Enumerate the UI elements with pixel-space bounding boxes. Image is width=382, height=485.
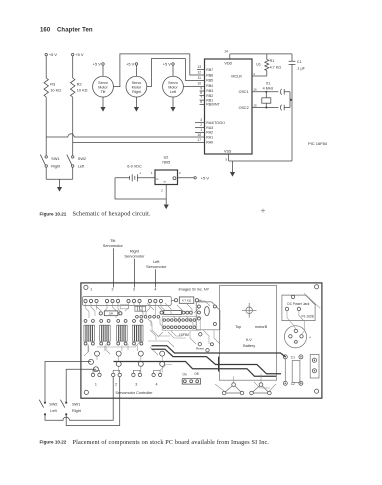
svg-text:Battery: Battery bbox=[243, 344, 255, 348]
battery 6-9 VDC bbox=[115, 164, 155, 181]
svg-text:R3: R3 bbox=[50, 83, 55, 87]
svg-text:Right: Right bbox=[72, 409, 82, 413]
svg-text:3: 3 bbox=[200, 118, 202, 122]
svg-text:10 KΩ: 10 KΩ bbox=[77, 89, 88, 93]
svg-text:RB5: RB5 bbox=[206, 79, 213, 83]
DC power jack box bbox=[282, 295, 315, 321]
resistor footprint 4.7K bbox=[171, 297, 201, 303]
ground (7805) bbox=[164, 199, 169, 209]
component footprint (crystal) bbox=[135, 306, 146, 311]
svg-text:RB1: RB1 bbox=[206, 98, 213, 102]
mounting hole BR bbox=[315, 389, 319, 393]
thick trace D bbox=[218, 357, 220, 372]
svg-text:Left: Left bbox=[50, 409, 57, 413]
svg-text:Top: Top bbox=[235, 325, 241, 329]
DIP component block A bbox=[84, 319, 95, 345]
svg-text:+5 V: +5 V bbox=[93, 61, 102, 66]
svg-text:Figure 10.22: Figure 10.22 bbox=[40, 440, 67, 445]
pads row (column mids) bbox=[116, 361, 121, 366]
capacitor (OSC1 load) bbox=[280, 89, 290, 95]
+5V terminal (R3) bbox=[45, 53, 47, 55]
DIP socket pads row B bbox=[163, 326, 166, 329]
svg-text:RB2: RB2 bbox=[206, 94, 213, 98]
capacitor (OSC2 load) bbox=[280, 105, 290, 111]
wire bbox=[45, 56, 47, 78]
wire traces (top fan-out) bbox=[86, 303, 166, 318]
resistor footprint 10K b bbox=[160, 310, 192, 314]
svg-text:motorB: motorB bbox=[255, 325, 268, 329]
switch SW2 Left bbox=[67, 155, 86, 180]
component footprint right bbox=[310, 354, 319, 378]
svg-text:RB0/INT: RB0/INT bbox=[206, 103, 220, 107]
svg-text:2: 2 bbox=[200, 123, 202, 127]
regulator U2 7805 bbox=[151, 156, 181, 185]
thick trace B bbox=[152, 349, 282, 374]
svg-text:18: 18 bbox=[197, 133, 201, 137]
mounting hole BL bbox=[84, 390, 88, 394]
svg-text:Servomotor: Servomotor bbox=[124, 254, 145, 259]
resistor R1 4.7K bbox=[266, 54, 268, 60]
svg-text:Right: Right bbox=[51, 165, 61, 169]
svg-text:+5 V: +5 V bbox=[163, 61, 172, 66]
svg-text:VSS: VSS bbox=[224, 150, 232, 154]
mounting crosshair bbox=[242, 303, 257, 318]
svg-text:C1: C1 bbox=[291, 355, 295, 359]
svg-text:RA2: RA2 bbox=[206, 131, 213, 135]
svg-text:Schematic of hexapod circuit.: Schematic of hexapod circuit. bbox=[73, 211, 152, 218]
svg-text:9: 9 bbox=[200, 87, 202, 91]
svg-text:PIC 16F84: PIC 16F84 bbox=[308, 141, 328, 146]
svg-text:Servo: Servo bbox=[168, 81, 178, 85]
svg-text:+5 V: +5 V bbox=[75, 52, 84, 57]
svg-text:RA1: RA1 bbox=[206, 136, 213, 140]
wire SW2 top to board bbox=[45, 362, 91, 402]
DIP socket outline bbox=[162, 317, 200, 331]
svg-text:+5 V: +5 V bbox=[201, 175, 210, 180]
svg-text:Tilt: Tilt bbox=[101, 90, 106, 94]
wire traces (columns) bbox=[97, 355, 162, 373]
svg-text:RA3: RA3 bbox=[206, 126, 213, 130]
svg-text:4.7 KΩ: 4.7 KΩ bbox=[270, 66, 282, 70]
triangle footprint 2 bbox=[250, 383, 272, 395]
DIP component block C bbox=[117, 319, 128, 345]
thick trace C bbox=[114, 362, 277, 377]
svg-text:VDD: VDD bbox=[224, 61, 232, 65]
svg-text:OSC1: OSC1 bbox=[239, 90, 249, 94]
svg-text:Servomotor: Servomotor bbox=[146, 264, 167, 269]
DIP component block D bbox=[132, 319, 143, 345]
svg-text:Images SI Inc. NY: Images SI Inc. NY bbox=[179, 287, 210, 291]
svg-text:10 KΩ: 10 KΩ bbox=[50, 89, 61, 93]
trace jack to edge bbox=[304, 293, 320, 308]
svg-text:Servomotor Controller: Servomotor Controller bbox=[115, 391, 153, 395]
svg-text:160: 160 bbox=[40, 28, 51, 34]
svg-text:9-V: 9-V bbox=[246, 338, 252, 342]
DC jack footprint bbox=[284, 311, 311, 348]
diagonal trace col4 bbox=[160, 365, 172, 371]
svg-text:+: + bbox=[139, 171, 141, 175]
switch SW1 Right bbox=[40, 155, 61, 180]
svg-text:4.7 KΩ: 4.7 KΩ bbox=[182, 299, 192, 303]
svg-text:Chapter Ten: Chapter Ten bbox=[57, 28, 93, 34]
svg-text:.1 µF: .1 µF bbox=[296, 67, 305, 71]
switch SW1 Right (figure 2) bbox=[60, 400, 81, 416]
pads (misc center) bbox=[199, 333, 202, 336]
svg-text:Off: Off bbox=[194, 372, 198, 376]
op IC U1 PIC16F84 body bbox=[205, 59, 253, 154]
capacitor C2 footprint bbox=[283, 381, 303, 386]
svg-text:1: 1 bbox=[95, 382, 97, 386]
wire bbox=[72, 97, 74, 155]
wire R3 node to RA1 (hop over R2 line) bbox=[46, 134, 204, 137]
svg-text:RB7: RB7 bbox=[206, 68, 213, 72]
svg-text:4: 4 bbox=[156, 382, 158, 386]
svg-text:SW1: SW1 bbox=[51, 157, 59, 161]
svg-text:Servomotor: Servomotor bbox=[103, 243, 124, 248]
svg-text:R2: R2 bbox=[77, 83, 82, 87]
svg-text:RA0: RA0 bbox=[206, 141, 213, 145]
wire C1-C2 bbox=[284, 359, 286, 381]
connector pads bbox=[84, 299, 87, 302]
svg-text:RB4: RB4 bbox=[206, 84, 213, 88]
component outline small bbox=[120, 305, 128, 309]
svg-text:4: 4 bbox=[154, 288, 156, 292]
pad row (header) bbox=[136, 315, 139, 318]
resistor footprint 10K bbox=[99, 311, 122, 316]
svg-text:Motor: Motor bbox=[132, 86, 142, 90]
svg-text:OSC2: OSC2 bbox=[239, 106, 249, 110]
svg-text:Servo: Servo bbox=[132, 81, 142, 85]
servo motor Right bbox=[126, 61, 147, 111]
svg-text:12: 12 bbox=[197, 71, 201, 75]
PC board outline bbox=[81, 283, 322, 398]
svg-text:R1: R1 bbox=[270, 59, 275, 63]
svg-text:U2: U2 bbox=[164, 156, 169, 160]
bottom connector 4 bbox=[152, 370, 162, 376]
DIP socket pads row A bbox=[163, 319, 166, 322]
svg-text:DC Power Jack: DC Power Jack bbox=[287, 302, 309, 306]
svg-text:RA4/TOCKI: RA4/TOCKI bbox=[206, 121, 224, 125]
wire VDD rail bbox=[230, 53, 292, 55]
svg-text:15: 15 bbox=[253, 103, 257, 107]
svg-text:Motor: Motor bbox=[98, 86, 108, 90]
svg-text:Right: Right bbox=[132, 90, 141, 94]
switch SW2 Left (figure 2) bbox=[39, 400, 57, 416]
svg-text:+5 V: +5 V bbox=[126, 61, 135, 66]
wire bbox=[72, 56, 74, 78]
svg-text:3: 3 bbox=[135, 382, 137, 386]
svg-text:Motor: Motor bbox=[168, 86, 178, 90]
svg-text:RB6: RB6 bbox=[206, 73, 213, 77]
svg-text:16F84: 16F84 bbox=[179, 333, 189, 337]
pad SW2 wire end bbox=[89, 359, 94, 364]
ground (VSS) bbox=[230, 161, 235, 177]
svg-text:SW2: SW2 bbox=[49, 402, 57, 406]
svg-text:2: 2 bbox=[115, 382, 117, 386]
trace triangles bbox=[215, 374, 276, 391]
svg-text:On: On bbox=[183, 373, 187, 377]
svg-text:7805: 7805 bbox=[162, 160, 170, 164]
wire cap common bbox=[290, 92, 292, 108]
servo motor Left bbox=[163, 61, 184, 111]
svg-text:Figure 10.21: Figure 10.21 bbox=[40, 211, 67, 216]
svg-text:10K: 10K bbox=[109, 313, 114, 316]
DIP component block B bbox=[100, 319, 111, 345]
bottom connector 1 bbox=[91, 370, 101, 376]
svg-text:4 MHz: 4 MHz bbox=[263, 87, 274, 91]
svg-text:14: 14 bbox=[224, 50, 228, 54]
svg-text:X1: X1 bbox=[266, 82, 271, 86]
svg-text:13: 13 bbox=[197, 65, 201, 69]
thick trace A bbox=[152, 346, 286, 357]
svg-text:17: 17 bbox=[197, 138, 201, 142]
wire servo Left to RB4 bbox=[183, 86, 204, 88]
wire 7805 out to +5V bbox=[178, 177, 194, 179]
+5V terminal (R2) bbox=[72, 53, 74, 55]
wire bbox=[45, 97, 47, 155]
svg-text:3: 3 bbox=[133, 288, 135, 292]
svg-text:2: 2 bbox=[112, 288, 114, 292]
resistor R3 bbox=[44, 78, 48, 97]
wire SW1 bottom loop bbox=[66, 377, 120, 426]
wire servo Tilt to RB6 bbox=[113, 54, 204, 87]
svg-text:1: 1 bbox=[200, 128, 202, 132]
svg-text:6-9 VDC: 6-9 VDC bbox=[127, 164, 142, 168]
bottom connector 3 bbox=[132, 370, 142, 376]
node junction bbox=[290, 99, 292, 101]
wire SW2 bottom loop bbox=[45, 377, 113, 421]
svg-text:SW2: SW2 bbox=[78, 157, 86, 161]
svg-text:Left: Left bbox=[170, 90, 176, 94]
svg-text:Left: Left bbox=[78, 165, 85, 169]
resistor R2 bbox=[71, 78, 75, 97]
wire servo Right to RB5 bbox=[147, 59, 205, 87]
svg-text:16: 16 bbox=[253, 88, 257, 92]
svg-text:RB3: RB3 bbox=[206, 89, 213, 93]
connector strip bbox=[83, 297, 172, 306]
svg-text:PJ-102B: PJ-102B bbox=[301, 315, 313, 319]
capacitor C1 footprint bbox=[283, 355, 303, 360]
svg-text:1: 1 bbox=[90, 288, 92, 292]
wire R2 node to RA0 bbox=[73, 141, 205, 143]
svg-text:C1: C1 bbox=[297, 60, 302, 64]
svg-text:SW1: SW1 bbox=[72, 402, 80, 406]
svg-text:+5 V: +5 V bbox=[49, 52, 58, 57]
svg-text:6: 6 bbox=[200, 100, 202, 104]
bottom connector 2 bbox=[112, 370, 122, 376]
svg-text:10: 10 bbox=[197, 81, 201, 85]
svg-text:Servo: Servo bbox=[98, 81, 108, 85]
pad SW1 wire end bbox=[93, 367, 98, 372]
svg-text:U1: U1 bbox=[256, 62, 261, 66]
mounting hole TR bbox=[315, 285, 319, 289]
wire traces (middle mesh) bbox=[84, 301, 270, 388]
capacitor C1 .1uF bbox=[289, 54, 306, 161]
svg-text:8: 8 bbox=[200, 91, 202, 95]
svg-text:11: 11 bbox=[198, 76, 202, 80]
svg-text:Reset: Reset bbox=[196, 346, 204, 350]
svg-text:Placement of components on sto: Placement of components on stock PC boar… bbox=[73, 439, 270, 446]
wire battery return bbox=[115, 178, 166, 199]
crystal X1 4MHz bbox=[262, 82, 274, 109]
wire SW1 top to board bbox=[66, 369, 96, 401]
component box between C1 C2 bbox=[292, 361, 300, 383]
svg-text:+: + bbox=[309, 335, 311, 339]
wire 7805 gnd pin 2 bbox=[165, 185, 167, 200]
svg-text:MCLR: MCLR bbox=[231, 74, 242, 78]
servo motor Tilt bbox=[93, 61, 114, 111]
battery area outline bbox=[219, 286, 276, 381]
printing mark bbox=[261, 209, 265, 213]
power switch footprint On/Off bbox=[182, 372, 200, 384]
wire VSS to bus bbox=[229, 160, 292, 162]
mounting hole TL bbox=[84, 285, 88, 289]
triangle footprint 1 bbox=[222, 383, 244, 395]
pads row (column tops) bbox=[95, 351, 100, 356]
regulator footprint 7805 bbox=[196, 302, 220, 330]
svg-text:7: 7 bbox=[200, 96, 202, 100]
ground (switches) bbox=[46, 179, 72, 191]
pin stubs left bbox=[197, 70, 205, 105]
